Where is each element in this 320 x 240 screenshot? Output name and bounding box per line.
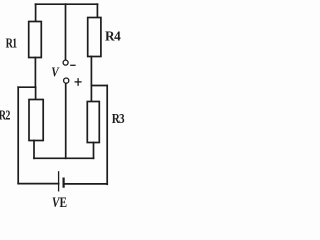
battery short plate: [62, 179, 64, 187]
terminal minus circle: [63, 60, 68, 65]
label R3: [112, 111, 125, 126]
svg-text:R1: R1: [6, 35, 18, 51]
label plus sign: [75, 79, 81, 85]
svg-text:R2: R2: [0, 107, 10, 123]
resistor R1: [29, 22, 42, 58]
wire bottom outer right: [64, 183, 108, 185]
wire R2 bottom stub: [33, 141, 35, 159]
wire bottom outer left: [18, 183, 58, 185]
resistor R2: [29, 100, 43, 141]
label R4: [105, 28, 121, 43]
label battery VE: [52, 193, 67, 210]
wire left outer vertical: [17, 87, 19, 183]
svg-text:VE: VE: [52, 193, 67, 210]
wire R3 bottom stub: [93, 143, 95, 159]
wire R1 bottom stub: [34, 58, 36, 88]
wire voltmeter upper: [65, 4, 67, 60]
resistor R3: [87, 102, 99, 143]
label minus sign: [71, 64, 75, 66]
wire inner bottom horizontal: [34, 157, 94, 159]
wire right outer vertical: [106, 86, 108, 185]
label R1: [6, 35, 18, 51]
label R2: [0, 107, 10, 123]
wire R2 top stub: [35, 87, 37, 99]
svg-text:R4: R4: [105, 28, 121, 43]
wire right jog: [91, 85, 107, 87]
resistor R4: [88, 18, 101, 57]
wire top horizontal: [36, 3, 98, 5]
wire R4 bottom stub: [90, 57, 92, 86]
wire R4 top stub: [96, 4, 98, 17]
label voltmeter V: [51, 64, 60, 79]
wire R3 top stub: [90, 86, 92, 102]
terminal plus circle: [64, 78, 69, 83]
svg-text:R3: R3: [112, 111, 125, 126]
wire R1 top stub: [35, 4, 37, 21]
wire left jog: [18, 86, 35, 88]
battery long plate: [58, 172, 60, 191]
wire voltmeter lower: [65, 83, 67, 158]
